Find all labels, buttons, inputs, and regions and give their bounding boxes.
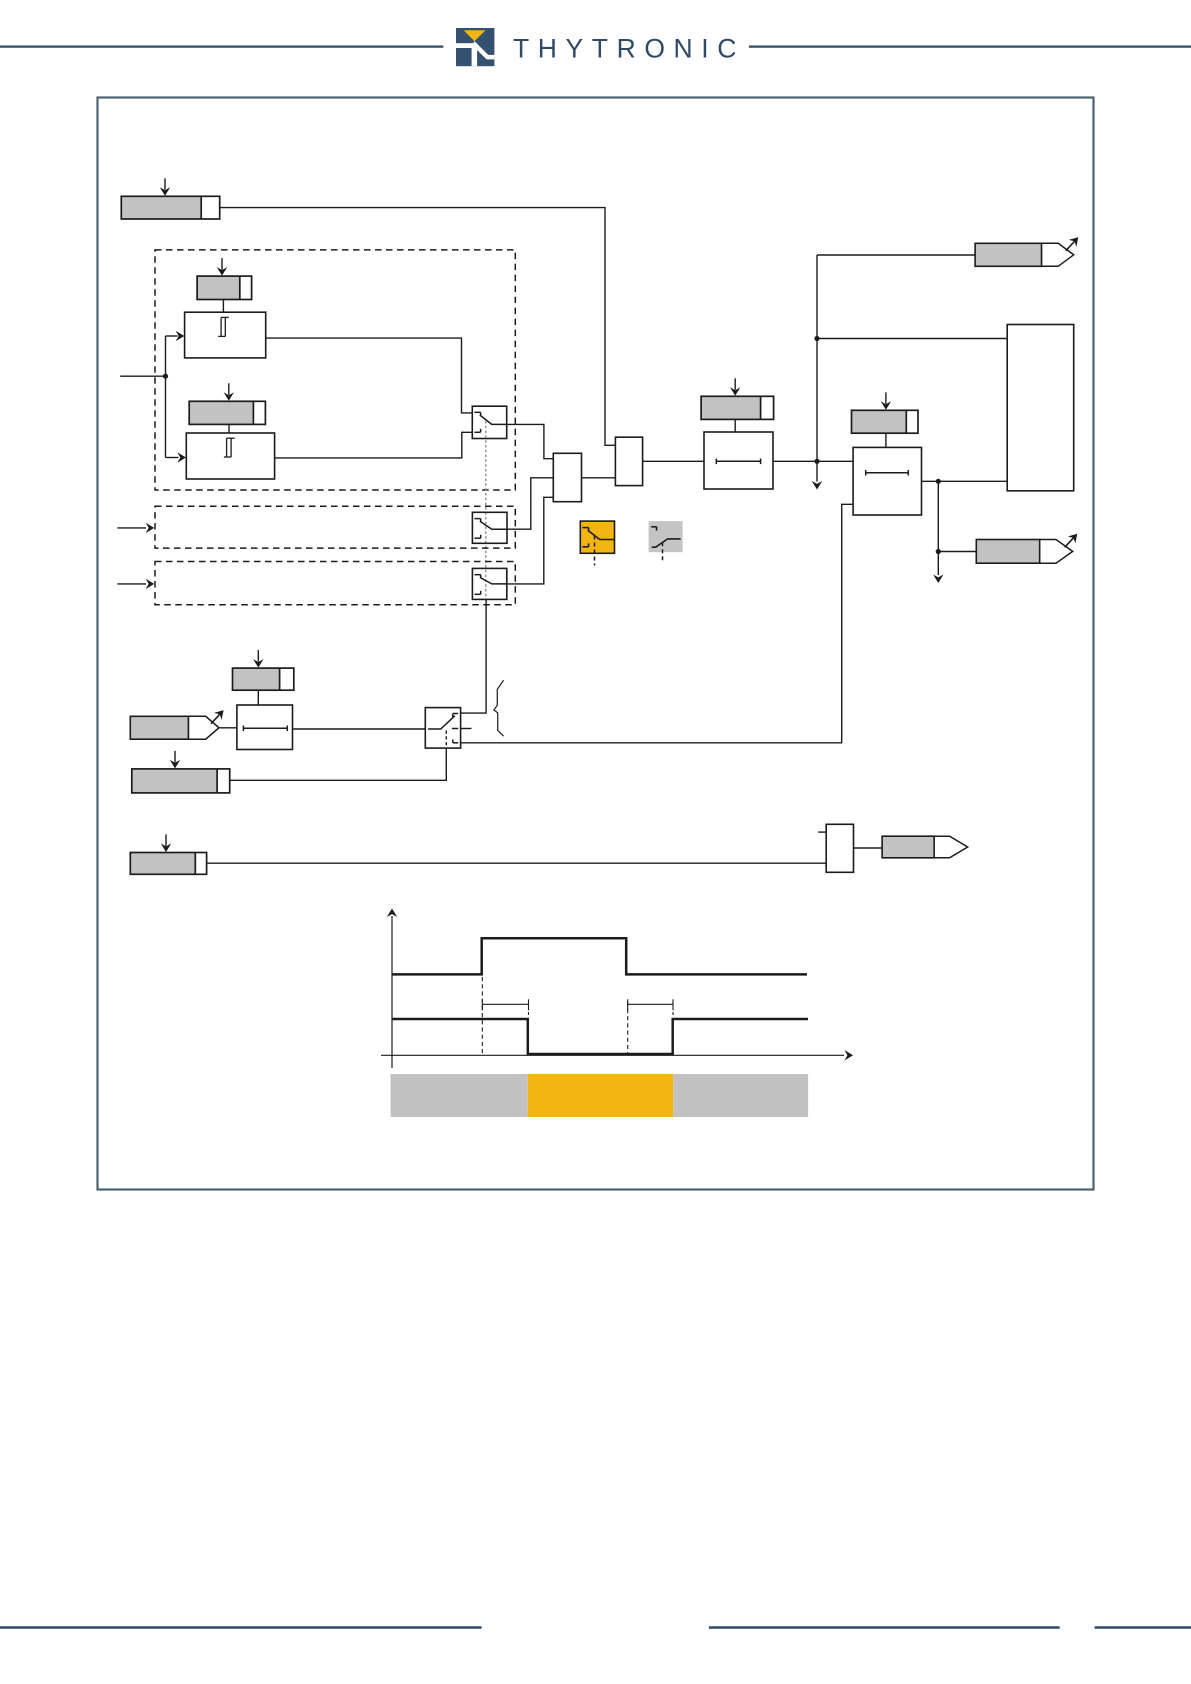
setting box S8 — [130, 835, 206, 875]
footer rule right — [1095, 1626, 1191, 1628]
wire junction to B1 input — [165, 336, 167, 376]
dashed marker t2 fall — [627, 1002, 629, 1054]
measure bar 2 dashed tail — [672, 1012, 674, 1018]
legend yellow switch — [580, 521, 614, 553]
wire junction to B2 input — [165, 376, 167, 457]
wire T1 to timer T2 — [773, 460, 853, 462]
dashed group box G2 — [155, 506, 515, 548]
AND gate A1 — [615, 437, 642, 485]
timing diagram x-axis — [381, 1054, 844, 1056]
threshold block B1 — [185, 312, 266, 358]
wire OR gate to AND gate A1 — [582, 477, 616, 479]
wire V1 to matrix box — [817, 338, 1007, 340]
setting box S6 (timer T3 delay) — [233, 650, 294, 690]
wire SW3 to OR gate — [507, 497, 554, 584]
diagram frame — [98, 98, 1094, 1190]
wire V2 to output flag F2 — [938, 551, 976, 553]
matrix box — [1007, 325, 1073, 491]
dashed group box G1 — [155, 250, 515, 490]
wire IN1 to timer T3 — [219, 727, 237, 729]
wire SW3 bottom to switch SW4 — [461, 599, 487, 713]
footer rule middle — [709, 1626, 1060, 1628]
curly brace annotation — [494, 680, 504, 736]
gang dashed line SW1-SW3 — [485, 421, 487, 599]
wire S2 to threshold block B1 — [222, 300, 224, 313]
timer T1 — [704, 432, 773, 489]
output flag F1 — [975, 237, 1078, 266]
wire S6 to T3 — [257, 690, 259, 705]
measure bar 1 dashed tail — [528, 1012, 530, 1018]
setting box S1 — [121, 178, 219, 219]
timing signal 2 — [392, 1019, 808, 1054]
dashed group box G3 — [155, 562, 515, 605]
legend switch gray — [649, 521, 683, 552]
Thytronic logo mark — [456, 28, 494, 66]
state bar yellow — [528, 1074, 673, 1117]
measure bar 2 — [628, 1003, 673, 1005]
header rule right — [749, 45, 1191, 47]
riser V2 — [937, 481, 939, 575]
SW4 NC stub — [461, 728, 472, 730]
gate A2 — [818, 824, 853, 872]
wire S3 to threshold block B2 — [228, 424, 230, 433]
dashed marker t1 rise — [481, 977, 483, 1054]
selector switch SW1 — [472, 406, 506, 438]
wire SW1 to OR gate — [507, 424, 554, 458]
riser V1 — [816, 255, 818, 482]
wire S7 to SW4 actuator — [230, 748, 447, 780]
state bar gray left — [391, 1074, 528, 1117]
svg-text:THYTRONIC: THYTRONIC — [513, 34, 745, 64]
junction T2-V2 — [936, 479, 941, 484]
wire A1 to timer T1 — [643, 460, 704, 462]
wire B2 to switch SW1 bottom — [275, 432, 473, 458]
wire S1 to AND gate A1 — [220, 208, 616, 446]
input wire with junction — [120, 375, 165, 377]
input arrow into G2 — [117, 527, 146, 529]
timer T2 — [853, 447, 921, 515]
setting box S3 — [189, 383, 265, 424]
input arrow into G3 — [117, 583, 146, 585]
wire SW2 to OR gate — [507, 478, 553, 529]
setting box S2 — [197, 258, 252, 299]
wire B1 to switch SW1 top — [266, 338, 473, 413]
selector switch SW2 — [472, 512, 507, 543]
selector switch SW4 (mirrored) — [425, 708, 460, 749]
output flag F2 — [976, 534, 1077, 563]
junction V1 to matrix — [814, 336, 819, 341]
wire S5 to T2 — [885, 433, 887, 447]
junction V2 to F2 — [936, 549, 941, 554]
wire S8 to gate A2 — [207, 862, 827, 864]
setting box S4 (timer T1 delay) — [701, 378, 774, 419]
legend gray dashed lead — [662, 542, 664, 563]
threshold block B2 — [186, 433, 274, 479]
wire T2 to matrix box — [922, 480, 1008, 482]
state bar gray right — [673, 1074, 808, 1117]
setting box S5 (timer T2 delay) — [852, 392, 919, 433]
OR gate — [553, 453, 581, 501]
input flag IN1 — [130, 710, 223, 739]
legend yellow dashed lead — [594, 536, 596, 566]
wire A2 to output flag F3 — [854, 847, 883, 849]
selector switch SW3 — [472, 568, 506, 599]
junction T1-V1 — [814, 459, 819, 464]
timer T3 — [237, 705, 293, 750]
footer rule left — [0, 1626, 482, 1628]
wire T3 to switch SW4 — [293, 728, 426, 730]
setting box S7 — [132, 751, 230, 793]
wire V1 to output flag F1 — [817, 254, 975, 256]
wire S4 to T1 — [734, 419, 736, 432]
header rule left — [0, 45, 443, 47]
timing diagram y-axis — [391, 916, 393, 1068]
output flag F3 — [882, 836, 968, 858]
wire SW4 to timer T2 feedback — [461, 504, 853, 743]
junction node — [163, 374, 168, 379]
timing signal 1 — [392, 938, 807, 974]
measure bar 1 — [482, 1003, 528, 1005]
